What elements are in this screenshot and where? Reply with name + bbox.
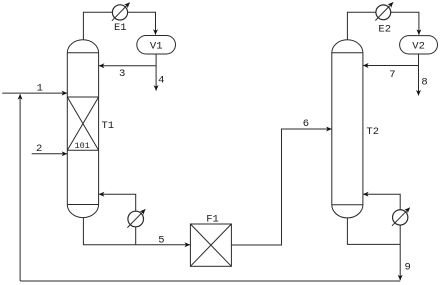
stream 7 reflux arrow into T2 — [363, 65, 418, 67]
wire: T2 bottoms line down and right — [347, 218, 400, 245]
vessel V2 (reflux drum) — [400, 36, 438, 54]
wire: V1 bottom outlet down (stream 4) — [155, 54, 157, 91]
column T1 shell — [67, 40, 98, 218]
svg-text:2: 2 — [36, 143, 42, 155]
svg-text:V2: V2 — [412, 41, 425, 53]
wire: T1 bottoms line down and right (stream 5) — [83, 218, 189, 245]
wire: T2 overhead vapor pipe to E2 — [347, 12, 376, 40]
vessel V1 (reflux drum) — [137, 36, 176, 55]
stream 3 reflux arrow into T1 — [99, 65, 156, 67]
svg-text:9: 9 — [405, 261, 411, 273]
heat exchanger: T1 reboiler — [127, 209, 145, 227]
wire: F1 outlet up to T2 (stream 6) — [231, 129, 331, 245]
stream 9 arrow down to recycle line — [399, 244, 401, 280]
heat exchanger E1 (condenser) — [112, 3, 130, 21]
svg-text:3: 3 — [119, 68, 125, 80]
svg-text:7: 7 — [389, 69, 395, 81]
wire: recycle line across bottom — [20, 280, 400, 282]
svg-text:1: 1 — [37, 83, 43, 95]
svg-text:6: 6 — [303, 118, 309, 130]
svg-text:8: 8 — [421, 77, 427, 89]
stream 1 feed arrow into T1 — [2, 92, 67, 94]
T1 packing section 101 (box with X) — [67, 97, 98, 150]
wire: V2 bottom outlet down (stream 8) — [418, 54, 420, 95]
unit F1 (box with X) — [190, 224, 231, 266]
svg-text:F1: F1 — [206, 214, 219, 226]
heat exchanger E2 (condenser) — [375, 2, 393, 20]
column T2 shell — [332, 40, 363, 218]
svg-text:T2: T2 — [366, 126, 379, 138]
heat exchanger: T2 reboiler — [392, 208, 410, 226]
svg-text:E2: E2 — [378, 24, 391, 36]
wire: E1 to V1 inlet — [128, 12, 156, 34]
wire: recycle riser up to stream 1 — [19, 94, 21, 281]
svg-text:V1: V1 — [150, 41, 163, 53]
svg-text:4: 4 — [158, 75, 164, 87]
wire: reboiler 1 riser — [135, 227, 137, 245]
svg-text:E1: E1 — [114, 22, 127, 34]
wire: T1 overhead vapor pipe to E1 — [83, 12, 112, 40]
stream 2 feed arrow into T1 — [32, 153, 67, 155]
svg-text:T1: T1 — [102, 120, 115, 132]
wire: reboiler 2 return into T2 — [363, 194, 400, 209]
wire: E2 to V2 inlet — [391, 12, 419, 34]
svg-text:101: 101 — [75, 141, 90, 151]
wire: reboiler 2 riser — [399, 225, 401, 244]
svg-text:5: 5 — [158, 234, 164, 246]
wire: reboiler 1 return into T1 — [99, 194, 136, 211]
